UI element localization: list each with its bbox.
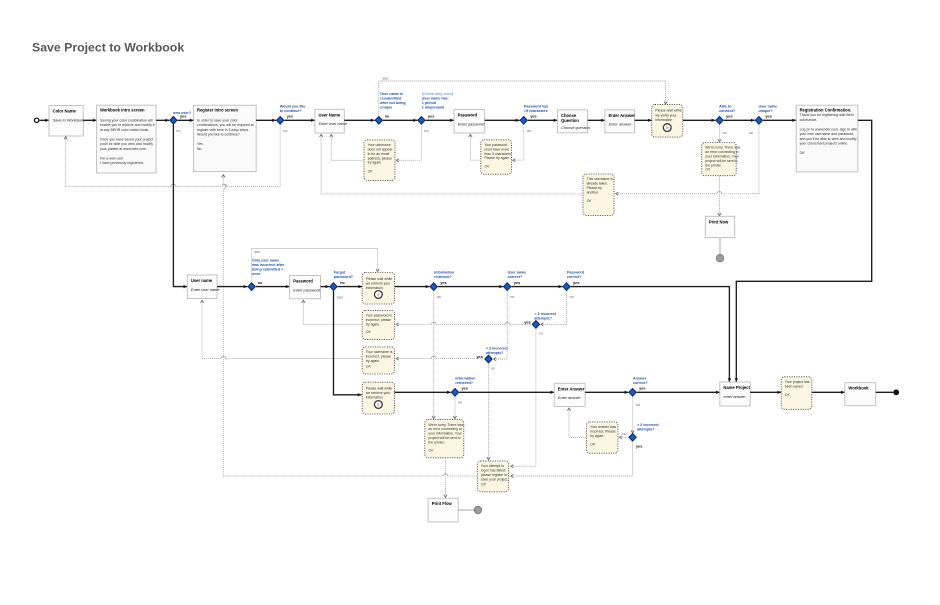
wire retrieve note 2 to info retrieved decision row3 [395, 391, 451, 394]
svg-text:yes: yes [524, 319, 531, 324]
svg-text:being submitted >: being submitted > [252, 267, 283, 271]
svg-text:We're sorry. There was: We're sorry. There was [705, 146, 740, 150]
wire forgot yes down to retrieve wait note 2 [334, 291, 362, 397]
svg-text:no: no [437, 295, 441, 299]
decision more than 3 incorrect attempts upper [524, 312, 557, 336]
svg-text:yes: yes [530, 114, 537, 119]
wire check yes to Password screen [426, 119, 454, 122]
svg-text:>5 characters: >5 characters [524, 109, 548, 113]
box User name sign-in [187, 275, 219, 299]
svg-text:no: no [527, 129, 531, 133]
svg-text:resubmitted: resubmitted [380, 97, 401, 101]
wire taken note back to User Name row1 [320, 134, 583, 194]
svg-text:Would you like to continue?: Would you like to continue? [197, 133, 240, 137]
wire Choose Question to Enter Answer [588, 119, 605, 122]
wire sorry note to Print Flow [444, 458, 447, 498]
wire Register intro to continue decision [256, 119, 276, 122]
svg-text:register with behr in 3 easy s: register with behr in 3 easy steps. [197, 128, 249, 132]
terminator gray circle top right [716, 255, 723, 262]
svg-text:no: no [539, 331, 543, 335]
decision more than 3 incorrect attempts lower [476, 346, 508, 370]
svg-text:Thank you for registering with: Thank you for registering with Behr [800, 113, 855, 117]
svg-text:Name Project: Name Project [723, 385, 750, 390]
svg-text:Registration Confirmation.: Registration Confirmation. [800, 107, 852, 112]
wire password correct yes to Name Project [571, 287, 731, 382]
svg-text:OK: OK [366, 330, 372, 334]
wire password incorrect note back to Password sign-in [302, 300, 362, 324]
wire start to Color Name [40, 119, 50, 122]
svg-text:try again: try again [368, 161, 381, 165]
note project saved [781, 377, 812, 410]
svg-text:we retrieve your: we retrieve your [366, 391, 391, 395]
wire attempts answer yes to failed note long loop [511, 441, 633, 477]
svg-text:Your password: Your password [484, 143, 507, 147]
svg-text:1 period: 1 period [422, 101, 436, 105]
svg-text:no: no [385, 115, 390, 119]
wire Name Project to saved note [750, 391, 781, 394]
decision password has more than 5 characters [520, 104, 548, 132]
decision information retrieved? row2 [430, 271, 454, 299]
svg-text:I have previously registered.: I have previously registered. [100, 161, 144, 165]
wire failed note back to Register intro screen [222, 175, 478, 476]
decision user name has 1 period 1 ampersand [418, 92, 454, 133]
wire attempts upper yes to password incorrect note [396, 322, 532, 326]
wire new user no down to sign-in User name [173, 125, 187, 289]
svg-text:no: no [283, 129, 287, 133]
svg-text:must have more: must have more [484, 147, 509, 151]
svg-text:combinations, you will be requ: combinations, you will be required to [197, 123, 254, 127]
wire resubmit yes loop to verify note [379, 76, 667, 116]
svg-text:please register to: please register to [481, 473, 507, 477]
svg-text:Your password is: Your password is [366, 314, 392, 318]
svg-text:no: no [622, 432, 626, 436]
wire user correct yes to password correct decision [511, 285, 562, 288]
svg-text:password?: password? [334, 275, 354, 279]
wire answer no down to attempts decision answer [631, 397, 634, 433]
svg-text:Save to Workbook: Save to Workbook [53, 118, 85, 122]
svg-text:correct?: correct? [508, 275, 523, 279]
svg-text:yes: yes [440, 280, 447, 285]
svg-text:no: no [723, 131, 727, 135]
svg-text:retrieved?: retrieved? [455, 381, 473, 385]
svg-text:once: once [252, 272, 261, 276]
note attempt to log in failed [477, 461, 508, 492]
svg-text:you'll be able you view and mo: you'll be able you view and modify [100, 142, 153, 146]
wire info3 yes to Enter Answer [459, 391, 554, 394]
wire unique yes to Registration Confirmation [763, 119, 796, 122]
note please wait retrieve 2 with spinner [362, 382, 394, 414]
svg-text:OK: OK [785, 393, 791, 397]
svg-text:yes: yes [639, 386, 646, 391]
svg-text:Password: Password [293, 279, 313, 284]
end node [893, 389, 899, 395]
svg-text:> 3 incorrect: > 3 incorrect [534, 312, 557, 316]
svg-text:project will be sent to: project will be sent to [705, 159, 737, 163]
svg-text:was incorrect after: was incorrect after [251, 263, 285, 267]
wire saved note to Workbook [812, 391, 845, 394]
svg-text:User name: User name [191, 278, 213, 283]
svg-text:no: no [258, 281, 263, 285]
box Enter Answer row1 [605, 110, 636, 133]
start node [34, 118, 38, 122]
svg-text:User Name: User Name [319, 112, 341, 117]
wire email note back to User Name [330, 134, 364, 160]
svg-text:Print Flow: Print Flow [432, 501, 453, 506]
svg-text:your palette at www.behr.com.: your palette at www.behr.com. [100, 147, 147, 151]
svg-text:We're sorry. There was: We're sorry. There was [428, 423, 463, 427]
svg-text:than 5 characters.: than 5 characters. [484, 152, 512, 156]
note answer incorrect [587, 422, 618, 453]
svg-text:to be an email: to be an email [368, 152, 390, 156]
svg-text:already taken.: already taken. [587, 182, 609, 186]
svg-text:OK: OK [368, 170, 374, 174]
svg-text:Workbook intro screen: Workbook intro screen [100, 107, 145, 112]
svg-text:Password has: Password has [524, 104, 548, 108]
box Workbook [845, 383, 876, 406]
svg-text:yes: yes [726, 114, 733, 119]
box Print Flow [428, 498, 458, 522]
box Password screen row1 [454, 110, 485, 134]
svg-text:yes: yes [337, 295, 343, 299]
svg-text:Only user name: Only user name [252, 258, 279, 262]
decision information retrieved? row3 [451, 376, 475, 404]
svg-text:no: no [510, 295, 514, 299]
svg-text:no: no [424, 129, 428, 133]
box Registration Confirmation [796, 105, 858, 172]
svg-text:Please wait while: Please wait while [366, 387, 392, 391]
wire user correct no down to attempts decision [494, 291, 508, 361]
svg-text:enter answer: enter answer [724, 395, 747, 399]
svg-text:address; please: address; please [368, 156, 392, 160]
svg-text:information: information [655, 118, 672, 122]
wire attempts lower no down to failed note [487, 363, 490, 460]
svg-text:OK: OK [800, 151, 806, 155]
svg-text:no: no [176, 129, 180, 133]
svg-text:unique?: unique? [759, 109, 774, 113]
svg-text:User name: User name [508, 271, 527, 275]
wire Password to forgot decision [321, 285, 330, 288]
note username incorrect [362, 347, 394, 374]
svg-text:Yes: Yes [197, 142, 203, 146]
note sorry error connecting row3 [425, 420, 464, 458]
decision only user name incorrect after submitted once [248, 250, 285, 290]
svg-text:attempts?: attempts? [534, 316, 552, 320]
svg-text:Able to: Able to [719, 104, 732, 108]
svg-text:and you'll be able to view and: and you'll be able to view and modify [800, 137, 857, 141]
svg-text:attempts?: attempts? [637, 427, 655, 431]
svg-text:incorrect; please: incorrect; please [366, 318, 391, 322]
svg-text:the printer.: the printer. [428, 440, 444, 444]
box Workbook intro screen [97, 105, 157, 173]
svg-text:incorrect. Please: incorrect. Please [590, 430, 616, 434]
wire attempts answer no to answer incorrect note [619, 436, 628, 439]
wire sorry note to Print Now [718, 176, 721, 216]
svg-text:correct?: correct? [633, 381, 648, 385]
svg-text:try again.: try again. [366, 359, 380, 363]
svg-text:no: no [340, 281, 345, 285]
wire length no to password length note [513, 125, 524, 162]
note username not email address [364, 140, 395, 181]
svg-text:no: no [636, 403, 640, 407]
box Choose Question [557, 110, 590, 133]
note please wait retrieve 1 with spinner [362, 273, 394, 305]
svg-text:try again.: try again. [366, 322, 380, 326]
wire Workbook to end node [876, 391, 894, 393]
decision user name resubmitted after not being unique [375, 92, 405, 124]
svg-text:no: no [491, 366, 495, 370]
wire answer incorrect note back to Enter Answer [567, 408, 586, 437]
svg-text:Enter Answer: Enter Answer [609, 113, 636, 118]
svg-text:OK: OK [484, 165, 490, 169]
svg-text:an error connecting to: an error connecting to [705, 150, 739, 154]
svg-text:been saved: been saved [785, 384, 803, 388]
note password incorrect [362, 310, 394, 339]
wire continue no back to Color Name [64, 125, 280, 187]
wire unique no to username taken note [616, 125, 759, 196]
wire attempts lower yes to username incorrect note [396, 356, 484, 360]
svg-text:yes: yes [382, 76, 388, 80]
svg-text:Enter user name: Enter user name [319, 122, 347, 126]
svg-text:yes: yes [765, 114, 772, 119]
svg-text:Color Name: Color Name [53, 109, 77, 114]
box User Name screen [315, 109, 347, 133]
svg-text:> 3 incorrect: > 3 incorrect [637, 423, 660, 427]
box Name Project [720, 382, 751, 406]
decision user name unique? [749, 104, 777, 135]
wire Print Now to offpage terminator [719, 238, 721, 255]
svg-text:yes: yes [636, 444, 643, 449]
svg-text:Enter password: Enter password [458, 122, 486, 126]
svg-text:This username is: This username is [587, 177, 613, 181]
svg-text:OK: OK [590, 443, 596, 447]
svg-text:save your project.: save your project. [481, 477, 508, 481]
svg-text:Workbook: Workbook [848, 386, 869, 391]
wire only-once no to Password sign-in [256, 285, 290, 288]
svg-text:yes: yes [287, 114, 294, 119]
svg-text:your colorsmart projects onlin: your colorsmart projects online. [800, 142, 849, 146]
svg-text:OK: OK [587, 199, 593, 203]
svg-text:your information. Your: your information. Your [705, 155, 739, 159]
svg-text:Enter answer: Enter answer [609, 123, 632, 127]
svg-text:Your project has: Your project has [785, 380, 810, 384]
svg-text:Please wait while: Please wait while [366, 277, 392, 281]
wire User Name to resubmit decision [344, 119, 374, 122]
svg-text:Log on to www.behr.com, sign i: Log on to www.behr.com, sign in with [800, 127, 858, 131]
svg-text:we verify your: we verify your [655, 113, 677, 117]
wire verify note to able-to-connect decision [683, 119, 716, 122]
box Enter Answer row3 [554, 383, 585, 406]
svg-text:Your username is: Your username is [366, 350, 393, 354]
wire Workbook intro to new user decision [156, 119, 169, 122]
svg-text:User name is: User name is [380, 92, 403, 96]
wire connect no to sorry note row1 [718, 125, 721, 142]
decision user name correct? [504, 271, 527, 299]
svg-text:an error connecting to: an error connecting to [428, 427, 462, 431]
svg-text:Password: Password [458, 113, 478, 118]
svg-text:yes: yes [462, 386, 469, 391]
svg-text:log in has failed;: log in has failed; [481, 469, 506, 473]
svg-text:incorrect; please: incorrect; please [366, 355, 391, 359]
svg-text:Enter user name: Enter user name [191, 288, 219, 292]
wire continue yes to User Name screen [284, 119, 315, 122]
svg-text:yes: yes [514, 280, 521, 285]
svg-text:yes: yes [254, 250, 260, 254]
svg-text:Answer: Answer [633, 376, 647, 380]
svg-text:Question: Question [561, 118, 579, 123]
wire forgot no to retrieve wait note [338, 285, 363, 288]
wire username incorrect note back to User name sign-in [201, 300, 363, 358]
wire Enter Answer to verify wait note [635, 119, 652, 122]
svg-text:Your answer was: Your answer was [590, 425, 616, 429]
svg-text:Save Project to Workbook: Save Project to Workbook [32, 40, 184, 54]
wire Password to length decision [485, 119, 520, 122]
wire attempts upper no down to failed note [511, 329, 536, 468]
svg-text:we retrieve your: we retrieve your [366, 281, 391, 285]
wire new user yes to Register intro screen [178, 119, 194, 122]
svg-text:Your username: Your username [368, 143, 391, 147]
svg-text:Choose question: Choose question [561, 126, 590, 130]
svg-text:project will be sent to: project will be sent to [428, 436, 460, 440]
svg-text:yes: yes [476, 354, 483, 359]
svg-text:Please try again.: Please try again. [484, 156, 510, 160]
svg-text:your new username and password: your new username and password, [800, 132, 855, 136]
wire check-once no to email note [396, 125, 421, 162]
wire password note back to Password [469, 134, 481, 160]
terminator gray circle bottom [474, 506, 481, 513]
wire length yes to Choose Question [528, 119, 558, 122]
svg-text:Register intro screen: Register intro screen [197, 107, 238, 112]
svg-text:Password: Password [567, 271, 584, 275]
wire Enter Answer to answer correct decision [585, 391, 628, 394]
svg-text:OK: OK [428, 448, 434, 452]
decision answer correct? [629, 376, 648, 407]
svg-text:colorsmart.: colorsmart. [800, 118, 817, 122]
wire connect yes to unique decision [724, 119, 755, 122]
decision new user? [170, 111, 192, 133]
wire info yes to user name correct decision [438, 285, 503, 288]
wire info retrieved no down to sorry note row3 [432, 291, 435, 419]
box Color Name [49, 106, 85, 137]
svg-text:> 3 incorrect: > 3 incorrect [486, 346, 509, 350]
svg-text:attempts?: attempts? [486, 351, 504, 355]
svg-text:Print Now: Print Now [709, 219, 729, 224]
box Print Now [705, 216, 734, 237]
note please wait verify with spinner [652, 104, 683, 137]
svg-text:No: No [197, 147, 202, 151]
svg-text:another: another [587, 190, 600, 194]
svg-text:your information. Your: your information. Your [428, 432, 462, 436]
wire retrieve note to info retrieved decision [395, 285, 430, 288]
svg-text:For a new user: For a new user [100, 156, 124, 160]
svg-text:Saving your color combination: Saving your color combination will [100, 118, 153, 122]
svg-text:correct?: correct? [567, 275, 582, 279]
box Register intro screen [194, 105, 257, 171]
svg-text:does not appear: does not appear [368, 148, 394, 152]
svg-text:Enter Answer: Enter Answer [558, 386, 585, 391]
note password must have more than 5 characters [481, 140, 512, 174]
note username already taken [583, 174, 614, 215]
svg-text:to continue?: to continue? [280, 109, 303, 113]
wire User name to only-once decision [217, 285, 247, 288]
svg-text:OK: OK [366, 365, 372, 369]
svg-text:Information: Information [434, 271, 454, 275]
svg-text:Enter password: Enter password [293, 288, 321, 292]
svg-text:information: information [366, 396, 383, 400]
wire resubmit no to check-once decision [383, 119, 417, 122]
decision Would you like to continue? [277, 104, 306, 132]
note sorry error connecting row1 [702, 143, 741, 176]
svg-text:Enter answer: Enter answer [558, 396, 581, 400]
svg-text:Information: Information [455, 376, 475, 380]
svg-text:yes: yes [428, 114, 435, 119]
decision able to connect? [716, 104, 736, 135]
svg-text:Once you have saved your proje: Once you have saved your project [100, 137, 153, 141]
svg-text:at any BEHR color match kiosk.: at any BEHR color match kiosk. [100, 128, 149, 132]
svg-text:User name: User name [759, 104, 778, 108]
svg-text:OK: OK [705, 168, 711, 172]
svg-text:User name has:: User name has: [422, 97, 449, 101]
wire info3 no down to sorry note row3 [453, 397, 456, 419]
svg-text:enable you to retrieve and mod: enable you to retrieve and modify it [100, 123, 155, 127]
wire Color Name to Workbook intro screen [83, 119, 96, 122]
decision password correct? [563, 271, 584, 299]
svg-text:[Check only once]: [Check only once] [422, 92, 454, 96]
svg-text:information: information [366, 286, 383, 290]
svg-text:Forgot: Forgot [334, 271, 346, 275]
svg-text:yes: yes [180, 114, 187, 119]
svg-text:no: no [458, 401, 462, 405]
title: Save Project to Workbook [32, 40, 184, 54]
svg-text:Please try: Please try [587, 186, 603, 190]
wire only-once yes loop to retrieve note [252, 249, 380, 283]
wire Registration Confirmation to Name Project [735, 120, 872, 382]
svg-text:connect?: connect? [719, 109, 736, 113]
svg-text:yes: yes [573, 280, 580, 285]
svg-text:unique: unique [380, 106, 392, 110]
wire Print Flow to offpage terminator [458, 509, 474, 511]
svg-text:Please wait while: Please wait while [655, 109, 681, 113]
svg-text:no: no [570, 295, 574, 299]
decision forgot password? [330, 271, 354, 300]
decision more than 3 incorrect attempts answer [622, 423, 659, 449]
svg-text:OK: OK [481, 482, 487, 486]
svg-text:after not being: after not being [380, 101, 405, 105]
svg-text:Would you like: Would you like [280, 104, 306, 108]
box Password sign-in [290, 276, 321, 299]
wire password correct no down to attempts decision [541, 291, 567, 326]
svg-text:1 ampersand: 1 ampersand [422, 106, 444, 110]
svg-text:In order to save your color: In order to save your color [197, 118, 238, 122]
svg-text:no: no [749, 131, 753, 135]
svg-text:retrieved?: retrieved? [434, 275, 452, 279]
svg-text:try again.: try again. [590, 434, 604, 438]
wire answer yes to Name Project [637, 391, 720, 394]
svg-text:Your attempt to: Your attempt to [481, 464, 504, 468]
